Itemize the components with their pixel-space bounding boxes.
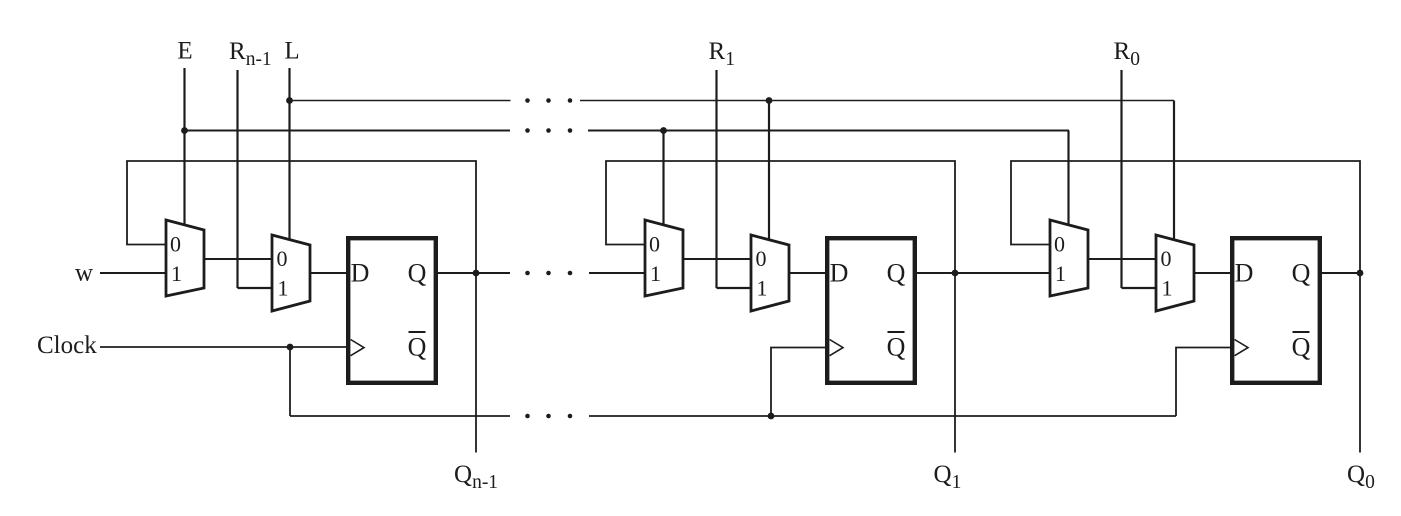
wire Q0 output drop xyxy=(1359,273,1361,453)
svg-text:1: 1 xyxy=(757,276,768,301)
svg-text:Q: Q xyxy=(1292,259,1311,288)
wire R_n-1 vertical xyxy=(236,70,238,288)
svg-text:0: 0 xyxy=(170,232,181,257)
wire U1b output to D xyxy=(789,272,825,274)
mux U0b (load, select L) xyxy=(1156,235,1194,311)
junction E-bus tap xyxy=(181,127,188,134)
wire shift from ellipsis to stage 1 mux xyxy=(589,272,645,274)
svg-text:1: 1 xyxy=(171,261,182,286)
wire R_0 into load mux xyxy=(1122,287,1157,289)
wire Qn-1 output xyxy=(438,272,476,274)
wire feedback Qn-1 to hold-mux 0 input xyxy=(127,161,476,273)
wire w input xyxy=(100,272,166,274)
wire U1a output xyxy=(683,258,751,260)
svg-text:E: E xyxy=(177,38,192,65)
junction Q1 xyxy=(952,270,959,277)
wire E vertical xyxy=(183,68,185,225)
wire Qn-1 output drop xyxy=(475,273,477,453)
mux U0a (hold/shift, select E) xyxy=(1050,220,1088,296)
wire L vertical xyxy=(288,68,290,240)
wire E select drop stage 0 xyxy=(1067,131,1069,225)
svg-text:1: 1 xyxy=(650,261,661,286)
ellipsis E bus xyxy=(525,128,530,133)
wire shift to ellipsis xyxy=(476,272,510,274)
svg-text:1: 1 xyxy=(278,276,289,301)
wire L bus segment 2 xyxy=(580,100,1174,102)
flip-flop FFn-1 xyxy=(348,238,436,383)
wire Un-1b output to D xyxy=(310,272,346,274)
junction L bus tap stage 1 xyxy=(766,97,773,104)
flip-flop FF0 xyxy=(1232,238,1320,383)
svg-text:D: D xyxy=(830,259,849,288)
svg-text:D: D xyxy=(1235,259,1254,288)
ellipsis clock bus xyxy=(525,414,530,419)
wire U0b output to D xyxy=(1194,272,1230,274)
wire Q1 output xyxy=(917,272,955,274)
mux Un-1b (load, select L) xyxy=(272,235,310,311)
svg-text:L: L xyxy=(284,38,299,65)
wire clock rise stage 1 xyxy=(771,348,825,417)
wire E bus segment 1 xyxy=(185,129,511,131)
wire R_1 into load mux xyxy=(717,287,752,289)
wire clock rise stage 0 xyxy=(1176,348,1230,417)
svg-text:Q: Q xyxy=(887,259,906,288)
svg-text:Q: Q xyxy=(408,333,427,362)
wire Q1 output drop xyxy=(954,273,956,453)
svg-text:0: 0 xyxy=(1161,246,1172,271)
svg-text:0: 0 xyxy=(277,246,288,271)
svg-text:Q: Q xyxy=(887,333,906,362)
junction L-bus tap xyxy=(286,97,293,104)
wire clock bus segment 2 xyxy=(589,415,1176,417)
wire U0a output xyxy=(1088,258,1156,260)
ellipsis shift row xyxy=(525,271,530,276)
wire R_n-1 into load mux xyxy=(238,287,273,289)
wire L select drop stage 0 xyxy=(1173,101,1175,240)
svg-text:Q: Q xyxy=(1292,333,1311,362)
junction Qn-1 xyxy=(473,270,480,277)
wire Clock input xyxy=(100,346,346,348)
junction E bus tap stage 1 xyxy=(660,127,667,134)
wire feedback Q1 to hold-mux 0 input xyxy=(606,161,955,273)
junction Clock tap xyxy=(287,344,294,351)
wire clock bus segment 1 xyxy=(290,415,510,417)
wire E select drop stage 1 xyxy=(662,131,664,225)
wire Q1 to next stage xyxy=(955,272,1050,274)
svg-text:0: 0 xyxy=(649,232,660,257)
wire L bus segment 1 xyxy=(290,100,511,102)
clock pin triangle of FFn-1 xyxy=(351,340,364,356)
svg-text:0: 0 xyxy=(1054,232,1065,257)
svg-text:Q: Q xyxy=(408,259,427,288)
wire R_0 vertical xyxy=(1120,70,1122,288)
wire R_1 vertical xyxy=(715,70,717,288)
svg-text:0: 0 xyxy=(756,246,767,271)
svg-text:1: 1 xyxy=(1055,261,1066,286)
junction clock bus tap stage 1 xyxy=(768,413,775,420)
wire Q0 output xyxy=(1322,272,1360,274)
mux U1b (load, select L) xyxy=(751,235,789,311)
ellipsis L bus xyxy=(525,98,530,103)
wire E bus segment 2 xyxy=(588,129,1069,131)
mux Un-1a (hold/shift, select E) xyxy=(166,220,204,296)
flip-flop FF1 xyxy=(827,238,915,383)
clock pin triangle of FF1 xyxy=(830,340,843,356)
svg-text:w: w xyxy=(75,260,93,287)
junction Q0 xyxy=(1357,270,1364,277)
svg-text:Clock: Clock xyxy=(37,332,97,359)
wire L select drop stage 1 xyxy=(768,101,770,240)
clock pin triangle of FF0 xyxy=(1235,340,1248,356)
wire Un-1a output xyxy=(204,258,272,260)
mux U1a (hold/shift, select E) xyxy=(645,220,683,296)
svg-text:1: 1 xyxy=(1162,276,1173,301)
wire feedback Q0 to hold-mux 0 input xyxy=(1011,161,1360,273)
wire Clock drop xyxy=(289,347,291,416)
svg-text:D: D xyxy=(351,259,370,288)
